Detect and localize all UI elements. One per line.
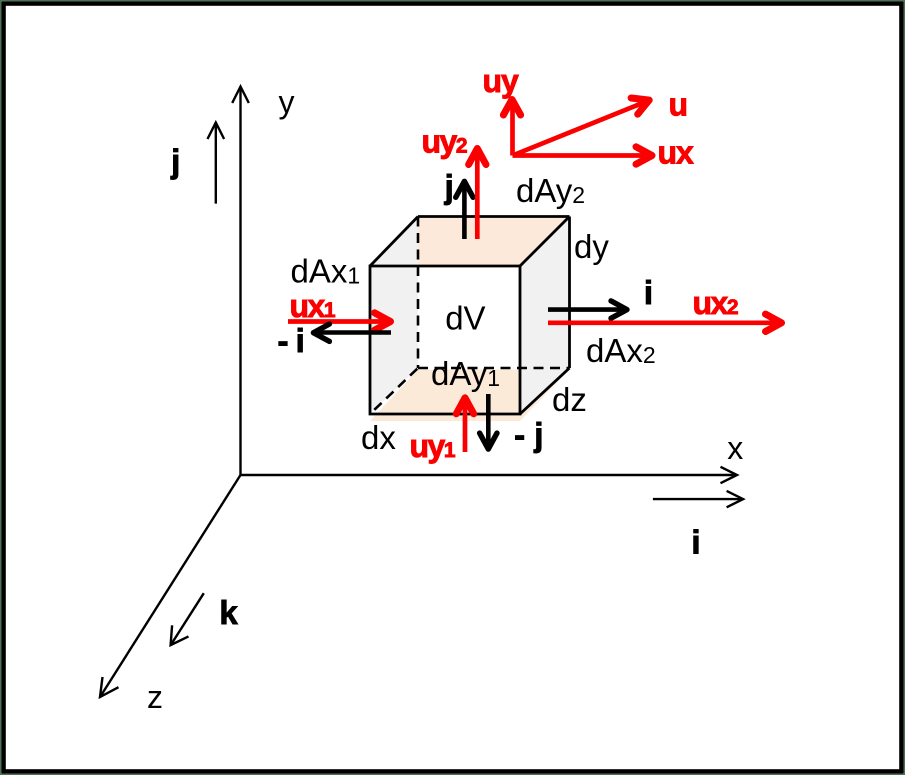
svg-text:i: i: [691, 524, 700, 561]
cube top-left diagonal edge: [370, 217, 418, 267]
cube back-right vertical edge: [568, 217, 571, 369]
unit vector k arrow: [171, 593, 204, 645]
vector uy2 (red, top of cube): [469, 149, 486, 240]
svg-text:uy: uy: [483, 63, 520, 99]
velocity triangle: vector u (red, diagonal): [513, 98, 650, 156]
cube top-back edge: [418, 215, 570, 218]
vector -i (black, pointing left): [313, 324, 391, 341]
vector i (black, right of cube): [548, 301, 627, 318]
svg-text:dy: dy: [574, 228, 609, 265]
cube bottom-right diagonal edge: [520, 368, 570, 414]
svg-text:u: u: [669, 87, 689, 123]
unit vector j arrow (left): [208, 123, 225, 204]
velocity triangle: vector ux (red, horizontal): [513, 147, 653, 164]
svg-text:y: y: [279, 84, 295, 120]
vector j (black, top of cube): [456, 181, 473, 239]
cube hidden edge: back-bottom (dashed): [418, 367, 570, 370]
svg-text:- i: - i: [278, 322, 304, 359]
cube hidden edge: bottom-left diagonal (dashed): [370, 368, 418, 414]
vector -j (black, pointing down): [480, 394, 497, 449]
x-axis: [241, 467, 738, 483]
z-axis: [100, 475, 241, 697]
cube top-right diagonal edge: [520, 217, 570, 267]
svg-text:dz: dz: [552, 381, 587, 418]
velocity triangle: vector uy (red, vertical): [503, 100, 520, 156]
cube front face outline: [370, 266, 520, 414]
vector ux2 (red, long right): [548, 314, 782, 331]
svg-text:- j: - j: [514, 416, 543, 453]
cube right face fill: [520, 217, 570, 415]
vector ux1 (red, into left face): [288, 313, 391, 330]
svg-text:dV: dV: [445, 299, 485, 336]
vector uy1 (red, below cube pointing up): [456, 398, 473, 452]
svg-text:j: j: [170, 143, 180, 180]
unit vector i arrow (bottom right): [653, 491, 743, 507]
svg-text:i: i: [644, 274, 653, 311]
svg-text:x: x: [727, 430, 743, 466]
svg-text:k: k: [219, 594, 238, 631]
cube top face fill: [370, 217, 570, 267]
svg-text:z: z: [147, 679, 163, 715]
svg-text:j: j: [444, 168, 454, 205]
svg-text:ux: ux: [658, 135, 695, 171]
cube bottom face fill: [370, 370, 570, 422]
cube hidden edge: back-left vertical (dashed): [417, 217, 420, 369]
svg-text:dx: dx: [361, 419, 396, 456]
cube left face fill: [370, 217, 418, 415]
y-axis: [232, 87, 249, 476]
